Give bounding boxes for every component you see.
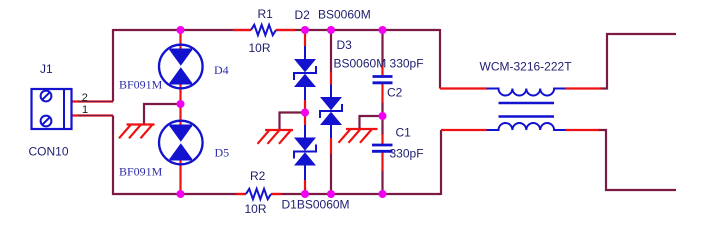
svg-text:D2: D2 — [295, 8, 311, 22]
svg-text:C1: C1 — [396, 125, 412, 139]
svg-text:BS0060M: BS0060M — [318, 8, 371, 22]
svg-text:BF091M: BF091M — [119, 164, 163, 178]
svg-text:10R: 10R — [249, 41, 271, 55]
svg-text:330pF: 330pF — [390, 147, 424, 161]
svg-text:R1: R1 — [258, 7, 274, 21]
svg-text:J1: J1 — [40, 62, 53, 76]
svg-text:D5: D5 — [215, 146, 230, 160]
svg-text:D3: D3 — [337, 38, 353, 52]
svg-text:WCM-3216-222T: WCM-3216-222T — [480, 59, 573, 73]
svg-text:CON10: CON10 — [29, 144, 69, 158]
svg-text:BS0060M 330pF: BS0060M 330pF — [334, 56, 424, 70]
svg-text:10R: 10R — [245, 202, 267, 216]
svg-text:BF091M: BF091M — [119, 78, 163, 92]
svg-text:D1BS0060M: D1BS0060M — [282, 198, 350, 212]
svg-text:R2: R2 — [250, 169, 266, 183]
svg-text:2: 2 — [82, 92, 88, 104]
svg-text:1: 1 — [82, 104, 88, 116]
svg-text:D4: D4 — [214, 63, 229, 77]
svg-text:C2: C2 — [387, 86, 403, 100]
